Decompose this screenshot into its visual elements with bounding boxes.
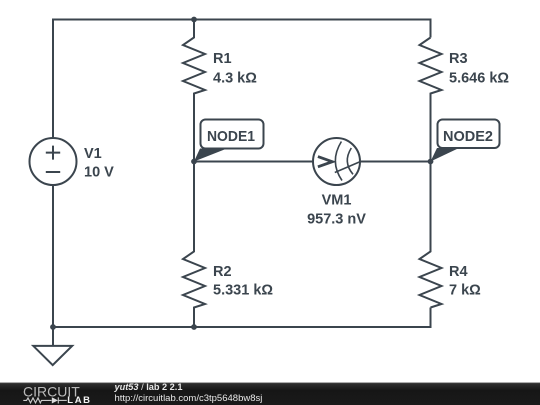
svg-text:5.646 kΩ: 5.646 kΩ — [449, 71, 509, 87]
svg-text:NODE1: NODE1 — [207, 128, 255, 145]
svg-text:R4: R4 — [449, 264, 468, 280]
svg-text:10 V: 10 V — [84, 165, 114, 181]
svg-text:R2: R2 — [213, 264, 232, 280]
svg-text:VM1: VM1 — [322, 193, 352, 209]
svg-text:R1: R1 — [213, 51, 232, 67]
svg-text:957.3 nV: 957.3 nV — [307, 212, 366, 228]
svg-text:R3: R3 — [449, 51, 468, 67]
svg-text:yut53 / lab 2 2.1: yut53 / lab 2 2.1 — [114, 382, 183, 392]
svg-text:http://circuitlab.com/c3tp5648: http://circuitlab.com/c3tp5648bw8sj — [115, 393, 263, 404]
svg-text:5.331 kΩ: 5.331 kΩ — [213, 283, 273, 299]
svg-text:V1: V1 — [84, 146, 102, 162]
svg-text:LAB: LAB — [67, 395, 91, 405]
svg-text:4.3 kΩ: 4.3 kΩ — [213, 71, 257, 87]
svg-text:NODE2: NODE2 — [443, 128, 493, 145]
svg-text:7 kΩ: 7 kΩ — [449, 283, 481, 299]
